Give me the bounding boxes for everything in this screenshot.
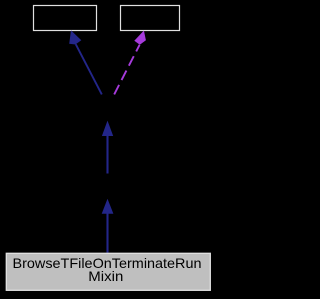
wire solid inheritance edge to left box [76, 44, 102, 94]
arrowhead vertical upper [102, 121, 113, 136]
base class box top-right [121, 6, 180, 31]
arrowhead vertical lower [102, 199, 114, 214]
wire vertical upper [106, 135, 108, 174]
arrowhead solid left [69, 30, 81, 44]
node BrowseTFileOnTerminateRunMixin [6, 253, 210, 290]
base class box top-left [34, 6, 97, 31]
wire vertical lower [106, 213, 108, 253]
wire dashed template edge to right box [114, 45, 139, 95]
svg-text:Mixin: Mixin [88, 268, 123, 284]
arrowhead dashed right [134, 31, 146, 45]
